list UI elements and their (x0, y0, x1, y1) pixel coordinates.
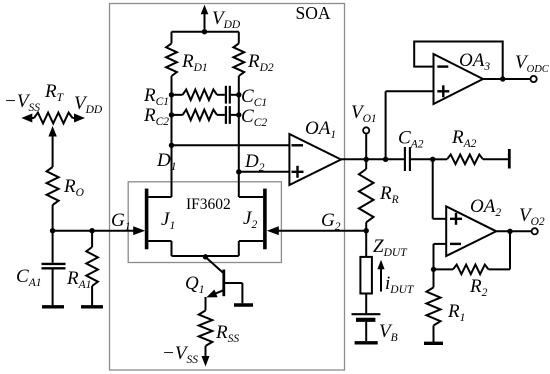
svg-text:OA3: OA3 (459, 50, 490, 73)
node RC1 junctions (169, 92, 174, 97)
svg-text:D2: D2 (244, 151, 265, 174)
-VSS arrow (RSS bottom) (205, 346, 207, 358)
terminal VO1 (365, 134, 367, 160)
wire common source rail (172, 255, 239, 257)
wire right rail D2 (238, 76, 240, 197)
node R1-R2 junction (431, 267, 436, 272)
transistor J2 (JFET) (239, 189, 265, 256)
ground VB (355, 341, 378, 344)
node CA2-RA2 junction (430, 157, 435, 162)
terminal VO2 (532, 228, 538, 234)
capacitor CA2 (404, 147, 406, 171)
wire OA3 output (483, 78, 530, 80)
svg-text:VODC: VODC (515, 52, 550, 75)
op-amp OA3 (434, 54, 484, 104)
svg-text:RSS: RSS (215, 322, 239, 345)
resistor RA2 (433, 158, 447, 160)
svg-text:−VSS: −VSS (4, 91, 40, 114)
svg-text:RA2: RA2 (451, 127, 477, 150)
node source rail junction (203, 254, 208, 259)
svg-text:J1: J1 (161, 209, 175, 232)
wire OA2 output (496, 230, 531, 232)
op-amp OA1 (289, 134, 341, 185)
svg-text:VDD: VDD (212, 8, 241, 31)
capacitor CC2 (225, 106, 227, 124)
svg-text:CA2: CA2 (398, 128, 424, 151)
resistor RA1 (91, 231, 93, 247)
svg-text:J2: J2 (243, 208, 257, 231)
resistor R1 (433, 269, 435, 287)
resistor RSS (199, 311, 213, 347)
node D1 dot (169, 143, 174, 148)
impedance ZDUT (365, 231, 367, 257)
resistor RO (47, 167, 59, 205)
wire G1 with gate arrow (53, 230, 135, 232)
VDD supply arrow (204, 14, 206, 32)
svg-text:G2: G2 (321, 210, 341, 233)
svg-text:RO: RO (63, 176, 85, 199)
svg-text:OA2: OA2 (470, 196, 501, 219)
resistor RC2 (172, 114, 183, 116)
node OA2 output junction (507, 229, 512, 234)
node D2 dot (236, 169, 241, 174)
resistor R2 (434, 268, 454, 270)
svg-text:VO2: VO2 (519, 205, 545, 228)
SOA module box (110, 4, 345, 371)
svg-text:SOA: SOA (296, 3, 331, 23)
svg-text:CA1: CA1 (16, 266, 41, 289)
node VO1 junction (364, 157, 369, 162)
svg-text:IF3602: IF3602 (186, 196, 231, 213)
wire OA2 inverting input (434, 243, 447, 245)
ground CA1 (42, 305, 64, 308)
resistor RD1 (171, 32, 173, 44)
ground Q1 base (234, 303, 253, 307)
resistor RD2 (238, 32, 240, 44)
svg-text:VDD: VDD (74, 93, 103, 116)
battery VB (352, 313, 381, 315)
svg-text:RD1: RD1 (181, 51, 208, 74)
potentiometer RT (21, 113, 85, 167)
capacitor CA1 (42, 231, 66, 306)
svg-text:RT: RT (44, 81, 65, 104)
ground R1 (424, 342, 443, 345)
ground RA1 (81, 305, 103, 308)
svg-text:RR: RR (379, 183, 399, 206)
svg-text:−VSS: −VSS (162, 343, 198, 366)
svg-text:RC2: RC2 (143, 105, 169, 128)
svg-text:iDUT: iDUT (385, 273, 415, 296)
wire G2 with gate arrow (279, 230, 367, 232)
node OA3 output junction (500, 76, 505, 81)
wire D1 to OA1 inverting input (172, 144, 290, 146)
node VDD dot (202, 29, 207, 34)
svg-text:Q1: Q1 (185, 273, 204, 296)
resistor RC1 (172, 94, 183, 96)
svg-text:D1: D1 (156, 150, 176, 173)
transistor J1 (JFET) (147, 189, 172, 256)
capacitor CC1 (225, 86, 227, 104)
svg-text:CC2: CC2 (241, 106, 267, 129)
node RC2 junctions (169, 112, 174, 117)
wire OA3 feedback loop (414, 42, 503, 80)
wire OA1 output (341, 158, 404, 160)
wire to OA2 non-inverting input (432, 159, 434, 219)
svg-text:OA1: OA1 (305, 118, 336, 141)
node G1 junction dots (50, 228, 55, 233)
terminal RA2 end bar (508, 149, 511, 169)
svg-text:R2: R2 (469, 276, 488, 299)
wire VDD rail (172, 31, 239, 33)
op-amp OA2 (446, 206, 496, 256)
svg-text:ZDUT: ZDUT (373, 236, 408, 259)
wire to OA3 non-inverting input (385, 91, 387, 159)
wire D2 to OA1 non-inverting input (239, 171, 290, 173)
current arrow iDUT (380, 268, 382, 292)
svg-text:RD2: RD2 (247, 51, 274, 74)
node G2 junction (364, 228, 369, 233)
svg-text:VB: VB (379, 321, 398, 344)
resistor RR (365, 159, 367, 169)
svg-text:VO1: VO1 (351, 102, 377, 125)
svg-text:RA1: RA1 (66, 268, 91, 291)
transistor Q1 (BJT) (206, 257, 243, 311)
node OA3 tap junction (383, 157, 388, 162)
wire left rail D1 (171, 76, 173, 197)
terminal VODC (531, 76, 537, 82)
svg-text:R1: R1 (447, 301, 465, 324)
IF3602 dual-JFET box (128, 182, 281, 263)
